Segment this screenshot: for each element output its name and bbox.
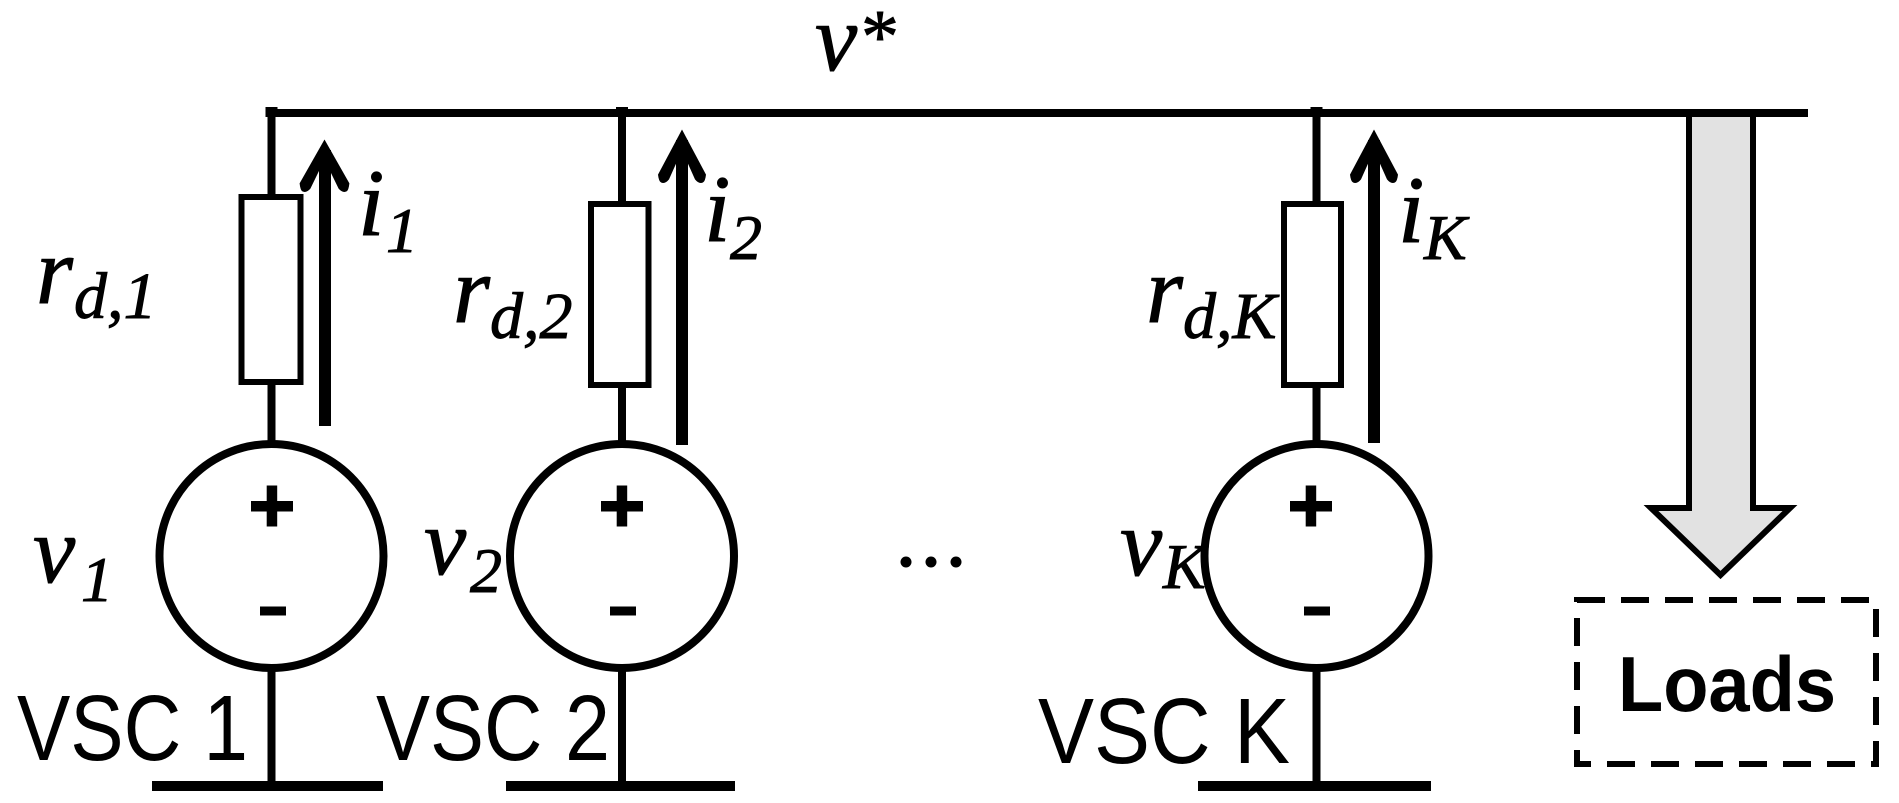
wire bus to resistor RK [1313,110,1321,205]
svg-text:r: r [453,237,491,343]
resistor r_d,2 value label [453,237,573,353]
svg-text:i: i [1398,157,1424,263]
svg-text:i: i [704,156,730,262]
svg-text:Loads: Loads [1618,640,1836,728]
svg-text:1: 1 [81,544,113,615]
V1 value label v1 [33,497,113,615]
wire source VK to ground [1313,664,1321,784]
VK plus sign [1290,486,1332,527]
load arrow [1651,113,1790,575]
node v* bus wire [267,109,1808,117]
svg-text:VSC K: VSC K [1038,679,1290,783]
voltage source V1 [160,444,384,668]
svg-text:v: v [815,0,858,91]
wire bus to resistor R2 [618,110,626,205]
VK minus sign [1304,607,1330,616]
svg-text:1: 1 [386,195,418,266]
svg-text:*: * [861,0,899,79]
junction dot branch 2 [616,107,628,117]
svg-text:VSC 2: VSC 2 [376,676,610,780]
V1 plus sign [251,486,293,527]
svg-text:v: v [33,497,76,603]
junction dot branch K [1311,107,1323,117]
Loads box [1577,600,1876,764]
svg-text:d,2: d,2 [490,280,573,353]
svg-text:K: K [1162,531,1209,602]
V2 value label v2 [424,489,502,606]
svg-text:v: v [424,489,467,595]
junction dot branch 1 [266,107,278,117]
current arrow i2 [658,130,706,446]
wire resistor R2 to source V2 [618,385,626,447]
svg-text:r: r [1146,237,1184,343]
resistor r_d,2 [591,204,649,385]
svg-text:i: i [358,150,384,256]
V2 plus sign [601,486,643,527]
svg-text:d,1: d,1 [74,260,157,333]
voltage source VK [1205,444,1429,668]
ellipsis between VSC 2 and VSC K [901,557,962,568]
bus overlap above load arrow [1660,109,1808,117]
node v* label [815,0,899,91]
current i1 label [358,150,418,266]
resistor r_d,K [1284,204,1341,385]
V2 minus sign [610,607,636,616]
wire resistor RK to source VK [1313,385,1321,447]
svg-text:r: r [36,218,74,324]
current arrow iK [1350,130,1398,444]
svg-text:VSC 1: VSC 1 [17,676,248,780]
V1 minus sign [260,607,286,616]
VK value label vK [1120,490,1209,602]
current iK label [1398,157,1470,273]
voltage source V2 [510,444,734,668]
current arrow i1 [300,140,350,427]
svg-text:d,K: d,K [1183,280,1280,353]
resistor r_d,K value label [1146,237,1280,353]
svg-text:K: K [1423,202,1470,273]
ground VSC K [1198,781,1431,791]
svg-text:2: 2 [470,535,502,606]
ground VSC 1 [152,781,383,791]
resistor r_d,1 value label [36,218,157,333]
svg-text:v: v [1120,490,1163,596]
wire source V1 to ground [268,664,276,784]
wire bus to resistor R1 [268,110,276,198]
wire resistor R1 to source V1 [268,382,276,446]
current i2 label [704,156,762,273]
svg-text:2: 2 [730,202,762,273]
wire source V2 to ground [618,664,626,784]
resistor r_d,1 [242,197,301,382]
ground VSC 2 [506,781,735,791]
